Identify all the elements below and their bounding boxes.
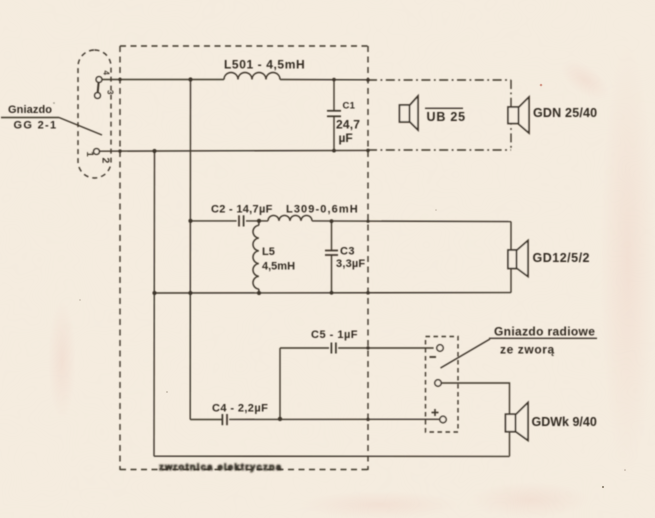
socket terminal top bbox=[437, 345, 443, 351]
capacitor C1 top lead bbox=[333, 80, 335, 111]
speaker assembly box UB25: bottom edge (dash-dot) bbox=[368, 149, 511, 151]
enclosure dashed box: left edge bbox=[119, 46, 121, 470]
label Gniazdo GG 2-1 bbox=[8, 104, 57, 132]
vertical wire V1 (from second rail to bottom rail) bbox=[153, 151, 156, 456]
red speck bbox=[540, 84, 543, 87]
svg-text:Gniazdo: Gniazdo bbox=[8, 104, 52, 116]
loudspeaker UB25 bbox=[400, 96, 419, 130]
capacitor C3 top lead bbox=[331, 221, 333, 250]
wire: bottom return rail bbox=[154, 455, 510, 457]
svg-text:C4 - 2,2µF: C4 - 2,2µF bbox=[212, 403, 268, 415]
capacitor C5 plates bbox=[331, 343, 336, 354]
junction node C5 branch on C4 wire bbox=[278, 417, 282, 421]
inductor L309 bbox=[268, 215, 312, 221]
svg-text:L309-0,6mH: L309-0,6mH bbox=[286, 204, 359, 216]
label UB 25 overline bbox=[425, 107, 463, 109]
svg-text:4: 4 bbox=[102, 71, 111, 76]
svg-text:C2 - 14,7µF: C2 - 14,7µF bbox=[211, 204, 273, 216]
label underline bbox=[489, 337, 597, 339]
loudspeaker GDWk 9/40 bbox=[506, 403, 529, 441]
inductor L5 (shunt) top stub bbox=[258, 221, 260, 225]
pink scan tints bbox=[600, 40, 655, 480]
svg-text:GDWk 9/40: GDWk 9/40 bbox=[532, 415, 597, 429]
junction dot at box edge / top rail bbox=[118, 78, 121, 81]
capacitor C1 bottom lead bbox=[333, 116, 335, 151]
svg-text:3,3µF: 3,3µF bbox=[336, 258, 365, 270]
junction node C3 tap bbox=[330, 219, 334, 223]
label C3 bbox=[336, 246, 365, 271]
enclosure dashed box: right edge bbox=[367, 46, 369, 470]
connector GG2-1 dashed outline bbox=[78, 50, 111, 178]
wire: C5 to socket bbox=[338, 347, 433, 349]
speaker assembly box UB25: top edge (dash-dot) bbox=[368, 79, 511, 81]
junction node C3 bottom bbox=[330, 291, 334, 295]
wire: midrange bottom rail bbox=[155, 292, 512, 294]
svg-text:GDN 25/40: GDN 25/40 bbox=[533, 106, 597, 120]
label L5 bbox=[262, 246, 295, 273]
svg-text:C1: C1 bbox=[343, 101, 356, 112]
capacitor C1 plates bbox=[327, 111, 341, 117]
svg-text:UB 25: UB 25 bbox=[427, 110, 466, 124]
svg-text:ze zworą: ze zworą bbox=[500, 343, 555, 357]
junction node second rail / C1 bottom bbox=[332, 149, 336, 153]
junction dot mid bottom rail at enclosure edge bbox=[366, 291, 370, 295]
pin 1 bbox=[94, 149, 100, 155]
junction node V1 / mid bottom rail bbox=[152, 291, 156, 295]
speaker assembly box UB25: right edge (dash-dot) bbox=[510, 80, 512, 150]
plus mark bbox=[432, 409, 439, 416]
wire C2 to L309 bbox=[246, 220, 268, 222]
svg-text:3: 3 bbox=[106, 90, 115, 95]
wire: middle terminal to speaker and down bbox=[441, 383, 509, 456]
inductor L5 coil bbox=[253, 225, 259, 289]
junction dot midrange rail at enclosure edge bbox=[366, 220, 369, 223]
junction dot second rail at enclosure edge bbox=[366, 149, 370, 153]
socket terminal bottom bbox=[440, 416, 446, 422]
svg-text:C5 - 1µF: C5 - 1µF bbox=[311, 329, 358, 341]
paper specks bbox=[79, 209, 626, 488]
wire: midrange rail right segment bbox=[312, 220, 511, 223]
capacitor C3 plates bbox=[325, 251, 338, 256]
wire: C4 to socket bbox=[229, 418, 440, 420]
inductor L5 bottom stub bbox=[258, 289, 260, 293]
wire: midrange right edge bbox=[510, 222, 512, 293]
label underline bbox=[1, 117, 59, 119]
enclosure dashed box: bottom edge bbox=[120, 469, 368, 471]
junction node L5 bottom bbox=[257, 291, 261, 295]
pin 3 bbox=[95, 93, 101, 99]
svg-text:C3: C3 bbox=[340, 246, 355, 258]
loudspeaker GD12/5/2 bbox=[508, 241, 528, 277]
ink speck bbox=[53, 102, 55, 104]
vertical wire V2 (from top rail to C4 wire) bbox=[189, 80, 191, 420]
svg-text:Gniazdo radiowe: Gniazdo radiowe bbox=[494, 325, 595, 339]
jumper between pin 3 and pin 4 bbox=[97, 83, 100, 93]
label Gniazdo radiowe ze zworą bbox=[494, 325, 595, 357]
minus mark bbox=[430, 356, 437, 358]
wire: midrange top rail bbox=[191, 220, 237, 222]
radio socket dashed box bbox=[426, 337, 459, 433]
capacitor C3 bottom lead bbox=[331, 255, 333, 293]
wire: C5 branch horizontal bbox=[280, 347, 329, 349]
label C1 bbox=[336, 101, 360, 146]
junction node L5 tap bbox=[257, 219, 261, 223]
svg-text:2: 2 bbox=[100, 158, 112, 164]
leader line to connector bbox=[59, 118, 102, 136]
vertical wire C5-to-C4 bbox=[279, 348, 281, 419]
loudspeaker GDN 25/40 bbox=[508, 97, 529, 133]
svg-text:1: 1 bbox=[84, 152, 95, 158]
capacitor C2 plates bbox=[239, 215, 244, 226]
svg-text:L501 - 4,5mH: L501 - 4,5mH bbox=[224, 58, 305, 72]
svg-text:L5: L5 bbox=[262, 246, 275, 258]
capacitor C4 plates bbox=[222, 414, 227, 425]
junction dot box edge / second rail bbox=[118, 149, 121, 152]
svg-text:GD12/5/2: GD12/5/2 bbox=[533, 251, 591, 265]
junction node top rail / vertical V2 bbox=[188, 77, 192, 81]
junction node V2 / mid bottom rail bbox=[188, 291, 192, 295]
junction dot C5 wire at enclosure edge bbox=[366, 346, 369, 349]
svg-text:GG 2-1: GG 2-1 bbox=[14, 119, 58, 131]
junction node top rail / C1 bbox=[332, 78, 336, 82]
leader line to socket bbox=[441, 339, 491, 368]
svg-text:4,5mH: 4,5mH bbox=[262, 261, 295, 273]
wire: C4 branch left segment bbox=[190, 419, 222, 421]
pin 4 bbox=[96, 77, 102, 83]
label zwrotnica elektryczna bbox=[159, 462, 282, 473]
svg-text:zwrotnica elektryczna: zwrotnica elektryczna bbox=[159, 462, 282, 473]
wire: top rail left segment bbox=[102, 79, 224, 81]
enclosure dashed box: top edge bbox=[120, 45, 368, 47]
junction node second rail / vertical V1 bbox=[152, 149, 156, 153]
inductor L501 bbox=[224, 73, 280, 80]
junction dot C4 wire at enclosure edge bbox=[366, 418, 369, 421]
wire: second rail bbox=[99, 149, 368, 152]
socket terminal middle bbox=[435, 380, 441, 386]
svg-text:24,7: 24,7 bbox=[336, 118, 360, 132]
svg-text:µF: µF bbox=[339, 131, 353, 145]
wire: top rail right segment bbox=[280, 79, 368, 81]
junction dot top rail at enclosure edge bbox=[366, 78, 370, 82]
junction node V2 / midrange rail bbox=[188, 219, 192, 223]
